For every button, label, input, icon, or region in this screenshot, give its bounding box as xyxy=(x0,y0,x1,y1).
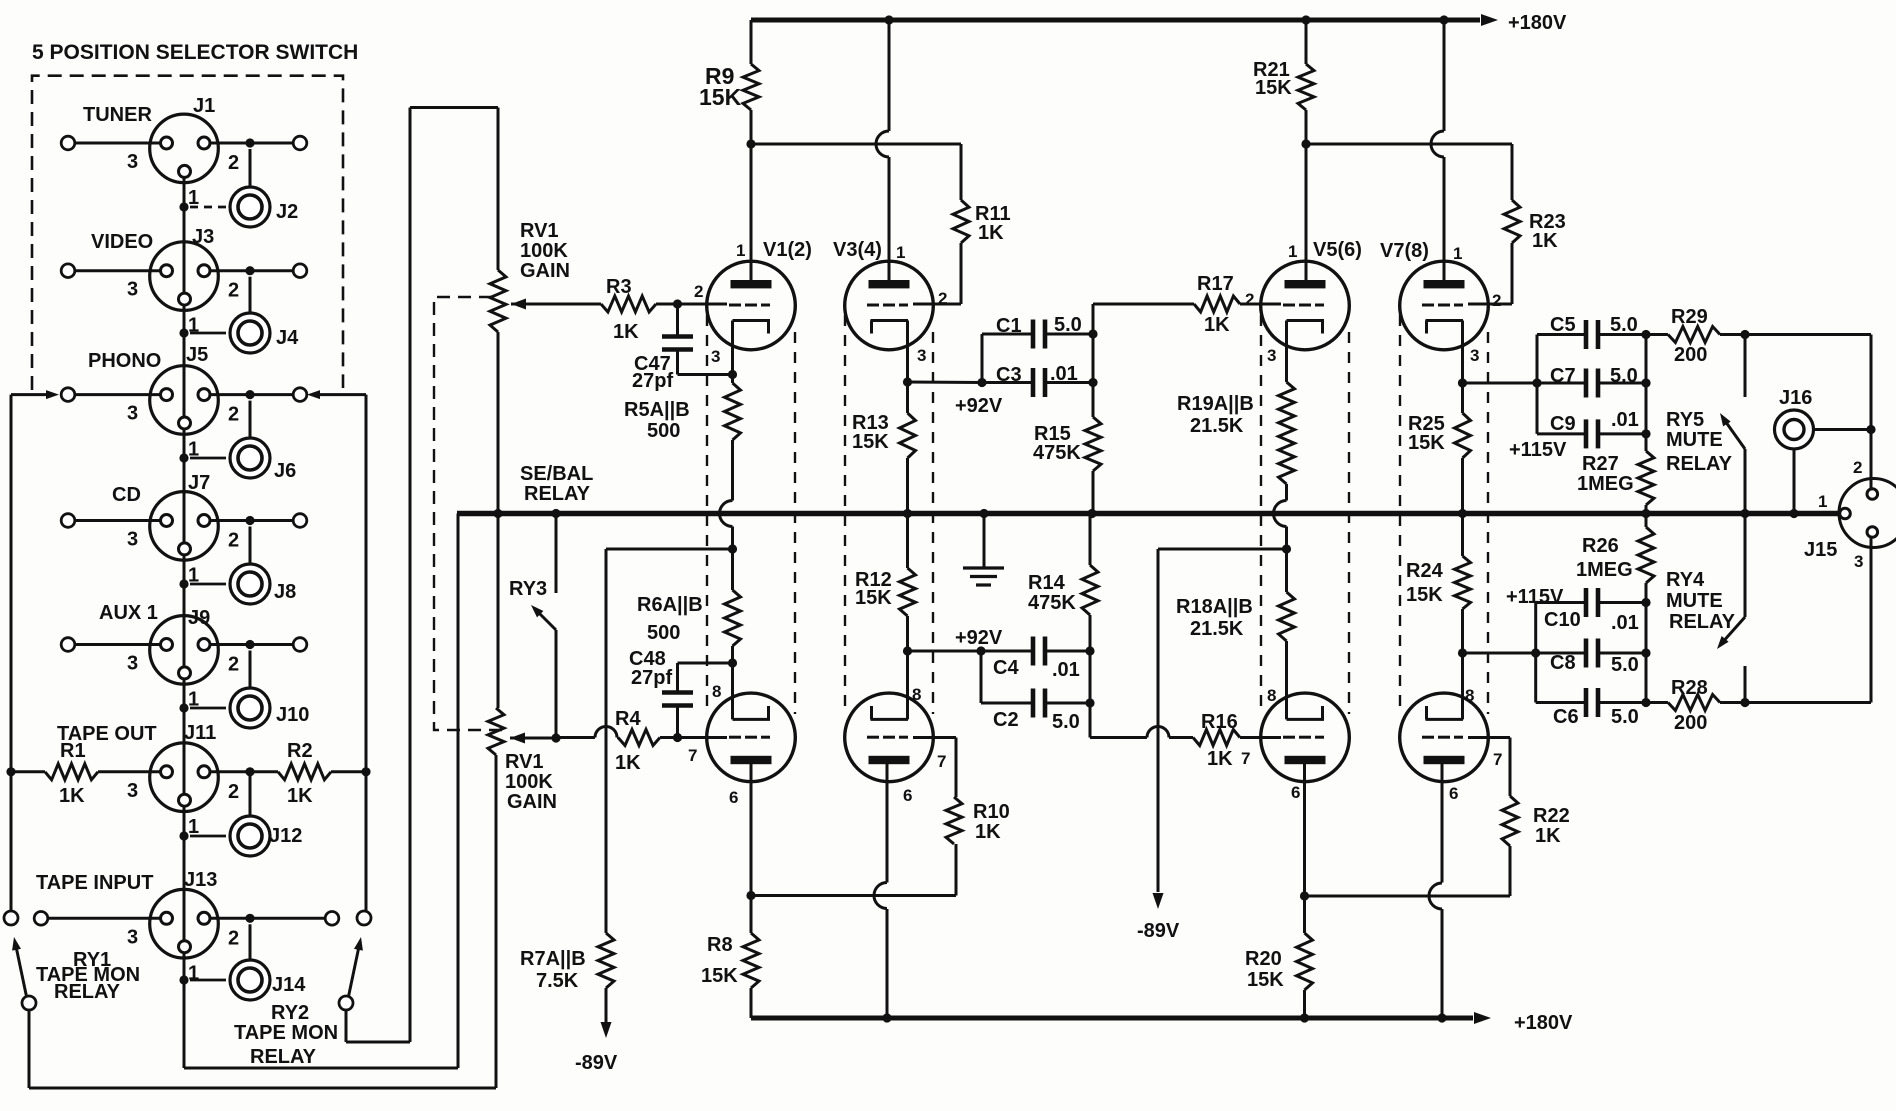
svg-text:R26: R26 xyxy=(1582,535,1619,557)
svg-text:1K: 1K xyxy=(1532,230,1558,252)
svg-text:2: 2 xyxy=(938,289,947,308)
svg-text:C7: C7 xyxy=(1550,365,1576,387)
svg-text:8: 8 xyxy=(1465,686,1474,705)
svg-text:.01: .01 xyxy=(1052,659,1080,681)
wires connector J3 xyxy=(61,264,307,338)
capacitor C47 27pf xyxy=(632,304,733,392)
svg-text:J8: J8 xyxy=(274,581,296,603)
resistor R18A||B 21.5K xyxy=(1176,549,1295,641)
labels V5 pins xyxy=(1245,239,1362,365)
svg-text:1K: 1K xyxy=(1535,825,1561,847)
svg-text:R16: R16 xyxy=(1201,711,1238,733)
svg-text:3: 3 xyxy=(127,653,138,675)
resistor R7A||B 7.5K xyxy=(520,549,733,1038)
svg-text:1K: 1K xyxy=(1207,748,1233,770)
triode V3 (upper half) xyxy=(845,20,934,382)
svg-text:R27: R27 xyxy=(1582,453,1619,475)
resistor R2 xyxy=(210,740,371,807)
svg-text:C3: C3 xyxy=(996,364,1022,386)
svg-text:1: 1 xyxy=(1288,242,1297,261)
label J9 group xyxy=(99,602,309,726)
RCA jack J16 xyxy=(1775,387,1876,514)
svg-text:R6A||B: R6A||B xyxy=(637,594,703,616)
svg-text:7.5K: 7.5K xyxy=(536,970,579,992)
svg-text:1MEG: 1MEG xyxy=(1576,559,1633,581)
svg-text:7: 7 xyxy=(937,752,946,771)
wire phono left return xyxy=(11,390,59,911)
svg-text:1: 1 xyxy=(736,241,745,260)
relay RY4 mute switch xyxy=(1666,514,1745,703)
dashed linkage V1/V2 xyxy=(707,315,795,714)
svg-text:6: 6 xyxy=(903,786,912,805)
svg-text:1K: 1K xyxy=(978,222,1004,244)
resistor R28 200 xyxy=(1646,677,1745,734)
XLR connector J15 output xyxy=(1839,479,1896,548)
svg-text:R22: R22 xyxy=(1533,805,1570,827)
resistor R20 15K xyxy=(1245,896,1313,1018)
svg-text:1MEG: 1MEG xyxy=(1577,473,1634,495)
svg-text:J7: J7 xyxy=(188,472,210,494)
svg-text:J4: J4 xyxy=(276,327,299,349)
svg-text:C10: C10 xyxy=(1544,609,1581,631)
potentiometer RV1 lower 100K GAIN xyxy=(488,708,557,813)
label J1 group xyxy=(83,95,298,223)
svg-text:C9: C9 xyxy=(1550,413,1576,435)
svg-text:J13: J13 xyxy=(184,869,217,891)
svg-text:15K: 15K xyxy=(1406,584,1443,606)
svg-text:J9: J9 xyxy=(188,607,210,629)
svg-text:R29: R29 xyxy=(1671,306,1708,328)
wires connector J9 xyxy=(61,638,307,713)
triode V4 (lower half) xyxy=(845,651,934,1018)
resistor R21 15K xyxy=(1253,20,1314,144)
labels V8 pins xyxy=(1449,686,1502,803)
svg-text:15K: 15K xyxy=(1408,432,1445,454)
svg-text:3: 3 xyxy=(711,347,720,366)
resistor R24 15K xyxy=(1406,514,1471,654)
capacitor C7 5.0 xyxy=(1532,365,1646,398)
resistor R27 1MEG xyxy=(1577,451,1654,514)
label +115V lower xyxy=(1506,586,1564,608)
svg-text:1: 1 xyxy=(188,689,199,711)
svg-text:+180V: +180V xyxy=(1514,1012,1573,1034)
node V2 plate junction xyxy=(746,891,956,900)
svg-text:5.0: 5.0 xyxy=(1610,365,1638,387)
resistor R1 xyxy=(6,740,160,807)
RCA jack J10 xyxy=(230,688,270,728)
svg-text:-89V: -89V xyxy=(1137,920,1180,942)
svg-text:R24: R24 xyxy=(1406,560,1444,582)
svg-text:R19A||B: R19A||B xyxy=(1177,393,1254,415)
SE/BAL relay bus wire xyxy=(457,463,1840,520)
svg-text:8: 8 xyxy=(712,682,721,701)
wire RY2 to upper gain pot loop xyxy=(346,108,498,1043)
svg-text:C4: C4 xyxy=(993,657,1019,679)
RCA jack J6 xyxy=(230,438,270,478)
svg-text:RY2: RY2 xyxy=(271,1002,309,1024)
wires connector J7 xyxy=(61,514,307,589)
svg-text:1: 1 xyxy=(188,187,199,209)
resistor R9 15K xyxy=(699,20,759,144)
labels J15 xyxy=(1804,458,1863,571)
svg-text:RELAY: RELAY xyxy=(54,981,121,1003)
svg-text:-89V: -89V xyxy=(575,1052,618,1074)
node tail junction xyxy=(1158,544,1291,553)
svg-text:RELAY: RELAY xyxy=(1666,453,1733,475)
svg-text:3: 3 xyxy=(1470,346,1479,365)
svg-text:5.0: 5.0 xyxy=(1611,654,1639,676)
svg-text:2: 2 xyxy=(228,280,239,302)
label J13 group xyxy=(36,869,306,996)
XLR connector J5 xyxy=(150,366,219,435)
label +180V bottom xyxy=(1514,1012,1573,1034)
label +180V top xyxy=(1508,12,1567,34)
svg-text:6: 6 xyxy=(1449,784,1458,803)
resistor R19A||B 21.5K xyxy=(1177,382,1295,549)
svg-text:3: 3 xyxy=(127,926,138,948)
label -89V right xyxy=(1137,920,1180,942)
triode V6 (lower half) xyxy=(1261,641,1350,896)
svg-text:500: 500 xyxy=(647,420,680,442)
resistor R26 1MEG xyxy=(1576,514,1654,603)
resistor R16 1K xyxy=(1090,711,1281,770)
label J11 group xyxy=(57,722,302,847)
resistor R25 15K xyxy=(1408,383,1471,514)
svg-text:5.0: 5.0 xyxy=(1052,711,1080,733)
svg-text:15K: 15K xyxy=(699,84,742,110)
dashed linkage V5/V6 xyxy=(1261,315,1349,714)
svg-text:+180V: +180V xyxy=(1508,12,1567,34)
svg-text:R1: R1 xyxy=(60,740,86,762)
svg-text:27pf: 27pf xyxy=(631,667,672,689)
svg-text:1K: 1K xyxy=(59,785,85,807)
wire +180V top rail xyxy=(751,14,1498,26)
svg-text:5.0: 5.0 xyxy=(1054,314,1082,336)
resistor R11 1K xyxy=(913,144,1011,304)
svg-text:R17: R17 xyxy=(1197,273,1234,295)
node V7 cathode xyxy=(1458,378,1537,387)
RCA jack J12 xyxy=(230,816,270,856)
node V8 cathode xyxy=(1458,648,1536,657)
node +92V lower xyxy=(903,627,1003,656)
XLR connector J1 xyxy=(150,114,219,183)
svg-text:R28: R28 xyxy=(1671,677,1708,699)
svg-text:27pf: 27pf xyxy=(632,370,673,392)
wire phono right return xyxy=(307,390,366,911)
RCA jack J8 xyxy=(230,564,270,604)
svg-text:6: 6 xyxy=(1291,783,1300,802)
labels V4 pins xyxy=(903,685,946,805)
svg-text:2: 2 xyxy=(228,927,239,949)
svg-text:R2: R2 xyxy=(287,740,313,762)
svg-text:.01: .01 xyxy=(1611,409,1639,431)
node C10/C8/C6 right column xyxy=(1641,598,1650,707)
svg-text:V7(8): V7(8) xyxy=(1380,240,1429,262)
svg-text:2: 2 xyxy=(228,152,239,174)
svg-text:J2: J2 xyxy=(276,201,298,223)
wire RY1 to lower gain pot xyxy=(29,755,496,1088)
resistor R15 475K xyxy=(1033,417,1101,514)
svg-text:475K: 475K xyxy=(1033,442,1081,464)
svg-text:.01: .01 xyxy=(1050,363,1078,385)
wire -89V right xyxy=(1153,549,1164,909)
svg-text:1: 1 xyxy=(188,962,199,984)
bus junction dots xyxy=(493,509,1798,518)
RCA jack J14 xyxy=(230,960,270,1000)
XLR connector J11 xyxy=(150,743,219,812)
svg-text:2: 2 xyxy=(228,530,239,552)
label -89V left xyxy=(575,1052,618,1074)
svg-text:21.5K: 21.5K xyxy=(1190,618,1244,640)
svg-text:V3(4): V3(4) xyxy=(833,239,882,261)
svg-text:R5A||B: R5A||B xyxy=(624,399,690,421)
svg-text:7: 7 xyxy=(1493,750,1502,769)
svg-text:1: 1 xyxy=(188,439,199,461)
RCA jack J4 xyxy=(230,313,270,353)
capacitor C2 5.0 xyxy=(981,651,1090,733)
svg-text:7: 7 xyxy=(688,746,697,765)
svg-text:2: 2 xyxy=(228,404,239,426)
capacitor C48 27pf xyxy=(629,648,737,742)
labels V6 pins xyxy=(1241,686,1300,802)
svg-text:TAPE INPUT: TAPE INPUT xyxy=(36,872,153,894)
svg-text:8: 8 xyxy=(1267,686,1276,705)
resistor R23 1K xyxy=(1468,144,1566,304)
svg-text:+92V: +92V xyxy=(955,627,1003,649)
svg-text:15K: 15K xyxy=(852,431,889,453)
svg-text:RV1: RV1 xyxy=(505,751,544,773)
dashed linkage V3/V4 xyxy=(845,315,933,714)
node +92V upper xyxy=(903,377,1003,417)
resistor R5A||B 500 xyxy=(624,370,741,549)
capacitor C5 5.0 xyxy=(1537,314,1646,434)
svg-text:J12: J12 xyxy=(269,825,302,847)
svg-text:CD: CD xyxy=(112,484,141,506)
svg-text:TUNER: TUNER xyxy=(83,104,152,126)
node V6 plate junction xyxy=(1300,891,1510,900)
labels V2 pins xyxy=(688,682,738,807)
resistor R4 1K xyxy=(556,708,727,774)
resistor R12 15K xyxy=(855,514,916,652)
label J5 group xyxy=(88,344,296,482)
node R28 right xyxy=(1740,537,1871,707)
relay RY2 tape mon contacts xyxy=(234,911,371,1068)
resistor R17 1K xyxy=(1093,273,1281,336)
capacitor C8 5.0 xyxy=(1531,639,1646,677)
svg-text:J6: J6 xyxy=(274,460,296,482)
triode V7 (upper half) xyxy=(1400,20,1489,383)
svg-text:1: 1 xyxy=(896,243,905,262)
resistor R6A||B 500 xyxy=(637,549,741,663)
svg-text:J11: J11 xyxy=(184,722,216,744)
svg-text:SE/BAL: SE/BAL xyxy=(520,463,593,485)
svg-text:MUTE: MUTE xyxy=(1666,590,1723,612)
svg-text:100K: 100K xyxy=(505,771,553,793)
capacitor C1 5.0 xyxy=(982,314,1093,383)
XLR connector J13 xyxy=(150,889,219,958)
resistor R8 15K xyxy=(701,896,759,1019)
svg-text:5.0: 5.0 xyxy=(1611,706,1639,728)
svg-text:2: 2 xyxy=(1492,291,1501,310)
node C5/C7/C9 right column xyxy=(1641,330,1650,451)
svg-text:21.5K: 21.5K xyxy=(1190,415,1244,437)
labels V1 pins xyxy=(694,239,812,366)
svg-text:J5: J5 xyxy=(186,344,208,366)
svg-text:J10: J10 xyxy=(276,704,309,726)
XLR connector J7 xyxy=(150,492,219,561)
svg-text:GAIN: GAIN xyxy=(507,791,557,813)
svg-text:3: 3 xyxy=(127,403,138,425)
svg-text:J15: J15 xyxy=(1804,539,1837,561)
capacitor C3 .01 xyxy=(982,363,1093,397)
wire selector common chain (pin 1 bus) xyxy=(184,166,458,1068)
svg-text:V1(2): V1(2) xyxy=(763,239,812,261)
resistor R22 1K xyxy=(1468,738,1570,897)
svg-text:C6: C6 xyxy=(1553,706,1579,728)
svg-text:RY4: RY4 xyxy=(1666,569,1705,591)
ground symbol xyxy=(963,514,1004,586)
selector switch dashed box xyxy=(32,76,343,390)
svg-text:PHONO: PHONO xyxy=(88,350,161,372)
triode V8 (lower half) xyxy=(1400,653,1489,1018)
svg-text:C1: C1 xyxy=(996,315,1022,337)
svg-text:200: 200 xyxy=(1674,712,1707,734)
svg-text:200: 200 xyxy=(1674,344,1707,366)
svg-text:15K: 15K xyxy=(1247,969,1284,991)
svg-text:1K: 1K xyxy=(975,821,1001,843)
svg-text:R4: R4 xyxy=(615,708,641,730)
svg-text:1K: 1K xyxy=(615,752,641,774)
svg-text:3: 3 xyxy=(917,346,926,365)
svg-text:R20: R20 xyxy=(1245,948,1282,970)
svg-text:6: 6 xyxy=(729,788,738,807)
svg-text:R7A||B: R7A||B xyxy=(520,948,586,970)
svg-text:+92V: +92V xyxy=(955,395,1003,417)
capacitor C10 .01 xyxy=(1536,588,1646,703)
svg-text:2: 2 xyxy=(228,781,239,803)
svg-text:J16: J16 xyxy=(1779,387,1812,409)
svg-text:1: 1 xyxy=(188,565,199,587)
resistor R10 1K xyxy=(913,738,1010,896)
svg-text:2: 2 xyxy=(694,282,703,301)
svg-text:R3: R3 xyxy=(606,276,632,298)
wires connector J5 xyxy=(61,388,307,463)
capacitor C6 5.0 xyxy=(1536,688,1646,728)
svg-text:RELAY: RELAY xyxy=(1669,611,1736,633)
svg-text:VIDEO: VIDEO xyxy=(91,231,153,253)
resistor R14 475K xyxy=(1028,514,1098,652)
svg-text:7: 7 xyxy=(1241,749,1250,768)
svg-text:R8: R8 xyxy=(707,934,733,956)
svg-text:MUTE: MUTE xyxy=(1666,429,1723,451)
wire +180V bottom rail xyxy=(751,1012,1491,1024)
node C4/C2 right column xyxy=(1085,646,1094,737)
triode V1 (upper half) xyxy=(707,261,796,374)
svg-text:100K: 100K xyxy=(520,240,568,262)
svg-text:C8: C8 xyxy=(1550,652,1576,674)
svg-text:J1: J1 xyxy=(193,95,215,117)
svg-text:1: 1 xyxy=(188,816,199,838)
svg-text:AUX 1: AUX 1 xyxy=(99,602,158,624)
wires connector J13 xyxy=(34,912,339,985)
resistor R13 15K xyxy=(852,382,916,514)
resistor R3 1K xyxy=(601,276,678,343)
node R5/R6/R7 junction xyxy=(728,544,737,553)
svg-text:RY3: RY3 xyxy=(509,578,547,600)
svg-text:R10: R10 xyxy=(973,801,1010,823)
selector switch title xyxy=(32,41,358,64)
potentiometer RV1 upper 100K GAIN xyxy=(490,220,601,708)
svg-text:J14: J14 xyxy=(272,974,306,996)
svg-text:+115V: +115V xyxy=(1506,586,1564,608)
labels V3 pins xyxy=(833,239,947,365)
node R29 right / output line xyxy=(1740,330,1871,489)
svg-text:3: 3 xyxy=(127,780,138,802)
svg-text:RELAY: RELAY xyxy=(250,1046,317,1068)
relay RY3 switch xyxy=(509,514,561,743)
svg-text:3: 3 xyxy=(127,151,138,173)
svg-text:475K: 475K xyxy=(1028,592,1076,614)
triode V2 (lower half) xyxy=(707,663,796,896)
svg-text:1: 1 xyxy=(1818,492,1827,511)
wires connector J11 xyxy=(179,772,250,841)
svg-text:+115V: +115V xyxy=(1509,439,1567,461)
resistor R29 200 xyxy=(1646,306,1745,366)
XLR connector J3 xyxy=(150,242,219,311)
svg-text:3: 3 xyxy=(1854,552,1863,571)
svg-text:5 POSITION SELECTOR SWITCH: 5 POSITION SELECTOR SWITCH xyxy=(32,41,358,64)
labels V7 pins xyxy=(1380,240,1501,365)
svg-text:RELAY: RELAY xyxy=(524,483,591,505)
capacitor C9 .01 xyxy=(1537,409,1646,448)
RCA jack J2 xyxy=(230,187,270,227)
svg-text:J3: J3 xyxy=(192,226,214,248)
svg-text:1K: 1K xyxy=(1204,314,1230,336)
svg-text:C2: C2 xyxy=(993,709,1019,731)
svg-text:15K: 15K xyxy=(701,965,738,987)
svg-text:GAIN: GAIN xyxy=(520,260,570,282)
wires connector J1 xyxy=(61,136,307,211)
svg-text:1: 1 xyxy=(1453,244,1462,263)
svg-text:1: 1 xyxy=(188,315,199,337)
svg-text:15K: 15K xyxy=(1255,77,1292,99)
svg-text:15K: 15K xyxy=(855,587,892,609)
svg-text:.01: .01 xyxy=(1611,612,1639,634)
dashed gang link RV1 xyxy=(434,297,504,730)
svg-text:1K: 1K xyxy=(287,785,313,807)
svg-text:2: 2 xyxy=(1853,458,1862,477)
svg-text:2: 2 xyxy=(1245,290,1254,309)
svg-text:8: 8 xyxy=(912,685,921,704)
node V5 plate / R21 junction xyxy=(1301,139,1512,148)
triode V5 (upper half) xyxy=(1261,144,1350,382)
svg-text:3: 3 xyxy=(127,279,138,301)
node C1/C3 right column xyxy=(1088,304,1097,417)
label J7 group xyxy=(112,472,296,603)
svg-text:V5(6): V5(6) xyxy=(1313,239,1362,261)
svg-text:R18A||B: R18A||B xyxy=(1176,596,1253,618)
svg-text:R14: R14 xyxy=(1028,572,1066,594)
label +115V upper xyxy=(1509,439,1567,461)
svg-text:3: 3 xyxy=(127,529,138,551)
node V1 plate / R9 junction xyxy=(746,139,961,280)
svg-text:1K: 1K xyxy=(613,321,639,343)
svg-text:3: 3 xyxy=(1267,346,1276,365)
relay RY5 mute switch xyxy=(1666,335,1745,514)
svg-text:RV1: RV1 xyxy=(520,220,559,242)
relay RY1 tape mon contacts xyxy=(4,911,140,1010)
svg-text:C5: C5 xyxy=(1550,314,1576,336)
